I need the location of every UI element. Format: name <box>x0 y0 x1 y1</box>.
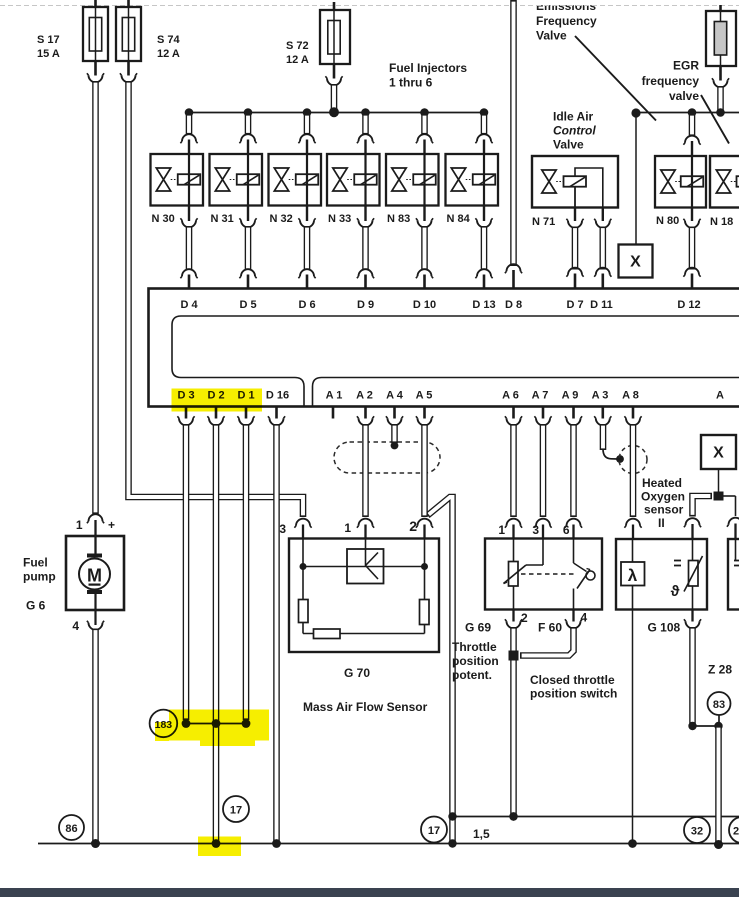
wire ECU D3 to splice 183 <box>183 424 190 720</box>
svg-text:2: 2 <box>733 826 739 838</box>
fuse S17 15A <box>37 0 108 61</box>
wire ECU D2 down to ground rail <box>213 424 220 842</box>
fuse EGR (top right) <box>706 5 736 66</box>
svg-text:II: II <box>658 516 665 530</box>
svg-text:N 18: N 18 <box>710 216 733 228</box>
fuel pump motor G6 <box>66 536 124 625</box>
wire terminal 83 to ground rail <box>714 726 723 849</box>
svg-text:pump: pump <box>23 570 56 584</box>
wire bus to injector N30 <box>180 114 197 154</box>
svg-text:D 7: D 7 <box>566 299 583 311</box>
label Fuel Injectors 1 thru 6 <box>389 61 467 90</box>
svg-text:D 12: D 12 <box>677 299 700 311</box>
wire bus to connector X (upper) <box>635 113 637 245</box>
svg-text:3: 3 <box>279 522 286 536</box>
svg-text:Idle Air: Idle Air <box>553 110 594 124</box>
svg-text:A 5: A 5 <box>416 390 433 402</box>
page border line <box>0 5 739 7</box>
svg-text:N 30: N 30 <box>152 213 175 225</box>
terminal (cut, right edge) <box>729 817 739 843</box>
solenoid injector valve N31 <box>210 154 263 225</box>
svg-text:λ: λ <box>628 566 638 585</box>
svg-text:N 32: N 32 <box>270 213 293 225</box>
svg-text:position: position <box>452 654 499 668</box>
throttle position potentiometer G69 / switch F60 <box>485 523 602 610</box>
label G108 <box>648 621 681 635</box>
shield (dashed circle) on A8 wire <box>619 446 647 474</box>
wire ECU A3 to shield of A8 <box>603 424 624 463</box>
solenoid injector valve N83 <box>386 154 439 225</box>
wire splice to terminal 83 <box>693 722 723 730</box>
svg-text:86: 86 <box>65 823 77 835</box>
svg-text:1: 1 <box>498 523 505 537</box>
svg-text:Fuel: Fuel <box>23 556 48 570</box>
fuse S74 12A <box>116 0 181 61</box>
label Emissions Frequency Valve (top-clipped) <box>528 0 610 43</box>
ECU bottom pins <box>177 407 641 426</box>
wire bus to injector N83 <box>416 114 433 154</box>
mass air flow sensor G70 <box>279 518 439 652</box>
page footer bar <box>0 888 739 897</box>
node injector supply bus <box>185 107 489 117</box>
wire X to heater junction <box>718 469 720 492</box>
svg-text:2: 2 <box>521 611 528 625</box>
wire bus to injector N84 <box>475 114 492 154</box>
wire ECU A7 to G69 pin 3 <box>534 424 551 539</box>
ECU control unit connector band <box>149 289 739 407</box>
terminal 86 <box>59 815 84 840</box>
terminal 83 <box>708 692 731 722</box>
splice 183 bus wire <box>186 723 246 725</box>
svg-text:15 A: 15 A <box>37 48 60 60</box>
svg-text:Valve: Valve <box>553 138 584 152</box>
connector X (upper) <box>619 245 653 278</box>
wire bus to valve N80 <box>683 114 700 156</box>
svg-text:G 70: G 70 <box>344 666 370 680</box>
solenoid injector valve N32 <box>269 154 322 225</box>
svg-text:S 17: S 17 <box>37 34 60 46</box>
svg-text:Valve: Valve <box>536 29 567 43</box>
svg-text:Control: Control <box>553 124 596 138</box>
wire N83 to ECU pin D <box>416 206 433 289</box>
svg-text:N 71: N 71 <box>532 216 555 228</box>
ECU top pin labels D4 D5 D6 D9 D10 D13 D8 D7 D11 D12 <box>180 299 700 311</box>
solenoid injector valve N84 <box>446 154 499 225</box>
svg-text:Frequency: Frequency <box>536 14 597 28</box>
label EGR frequency valve <box>642 59 700 104</box>
wire S17 to fuel pump <box>87 61 104 554</box>
wire bus to injector N31 <box>239 114 256 154</box>
svg-text:1: 1 <box>344 521 351 535</box>
solenoid injector valve N33 <box>327 154 380 225</box>
svg-text:A 9: A 9 <box>562 390 579 402</box>
ECU bottom pin labels D3 D2 D1 D16 A1 A2 A4 A5 A6 A7 A9 A3 A8 A <box>177 390 724 402</box>
svg-text:Mass Air Flow Sensor: Mass Air Flow Sensor <box>303 700 428 714</box>
svg-text:12 A: 12 A <box>157 48 180 60</box>
svg-text:A 4: A 4 <box>386 390 404 402</box>
svg-text:X: X <box>713 445 724 462</box>
leader line EGR frequency valve <box>701 95 729 144</box>
svg-text:EGR: EGR <box>673 59 699 73</box>
main ground rail (terminal 86/32) <box>38 843 739 845</box>
labels G69 F60 pins 2 4 <box>465 611 588 635</box>
wire G69 pin 2 down to sensor ground rail <box>505 610 522 821</box>
svg-text:1: 1 <box>76 518 83 532</box>
wire ECU D1 to splice 183 <box>243 424 250 720</box>
svg-text:Closed throttle: Closed throttle <box>530 673 615 687</box>
splice dots 183 row <box>182 719 251 728</box>
svg-text:A 3: A 3 <box>592 390 609 402</box>
wire S72 to injector bus <box>325 64 342 111</box>
svg-text:N 83: N 83 <box>387 213 410 225</box>
svg-text:N 31: N 31 <box>211 213 234 225</box>
svg-text:sensor: sensor <box>644 503 684 517</box>
wire N71 pin 2 to ECU D11 <box>594 208 611 289</box>
ground rail dots <box>91 839 723 849</box>
junction (solid square) F60 to G69 ground <box>509 651 519 661</box>
svg-text:G 69: G 69 <box>465 621 491 635</box>
label Heated Oxygen sensor II <box>641 476 685 530</box>
svg-text:N 84: N 84 <box>447 213 471 225</box>
label Z28 <box>708 663 732 677</box>
svg-text:G 6: G 6 <box>26 599 46 613</box>
svg-text:Heated: Heated <box>642 476 682 490</box>
svg-text:+: + <box>108 518 115 532</box>
label wire size 1,5 <box>473 827 490 841</box>
svg-text:A 6: A 6 <box>502 390 519 402</box>
svg-text:Oxygen: Oxygen <box>641 490 685 504</box>
svg-text:2: 2 <box>409 518 417 534</box>
wire N33 to ECU pin D <box>357 206 374 289</box>
svg-text:Fuel Injectors: Fuel Injectors <box>389 61 467 75</box>
wire ECU D16 down to ground rail <box>273 424 280 842</box>
fuel pump terminal labels <box>72 518 115 633</box>
svg-text:M: M <box>87 566 102 586</box>
wire S74 to G70 pin 3 <box>120 61 312 539</box>
junction (solid square) heater feed <box>714 492 724 501</box>
svg-text:D 4: D 4 <box>180 299 198 311</box>
terminal 32 <box>684 817 710 843</box>
svg-text:D 8: D 8 <box>505 299 522 311</box>
wire bus to injector N32 <box>298 114 315 154</box>
solenoid valve N80 (EGR frequency valve) <box>655 156 706 227</box>
svg-text:32: 32 <box>691 826 703 838</box>
svg-text:A 2: A 2 <box>356 390 373 402</box>
wire bus to injector N33 <box>357 114 374 154</box>
svg-text:valve: valve <box>669 89 699 103</box>
heated oxygen sensor II G108 <box>616 539 707 610</box>
svg-text:X: X <box>630 254 641 271</box>
shield (dashed) around A2/A5 wires <box>334 442 440 473</box>
svg-text:D 5: D 5 <box>239 299 256 311</box>
svg-text:Throttle: Throttle <box>452 640 497 654</box>
svg-text:G 108: G 108 <box>648 621 681 635</box>
wire F60 pin 4 to junction <box>520 610 582 656</box>
highlight splice 183 <box>155 710 269 747</box>
svg-text:A 1: A 1 <box>326 390 343 402</box>
svg-text:ϑ: ϑ <box>671 583 680 600</box>
wire junction to G108 heater pin <box>684 496 712 539</box>
label Fuel pump G6 <box>23 556 56 613</box>
svg-text:N 80: N 80 <box>656 215 679 227</box>
wire ECU A5 to G70 pin 2 <box>416 424 433 539</box>
oxygen sensor (partial, right edge) <box>728 539 739 610</box>
svg-text:4: 4 <box>72 619 79 633</box>
solenoid valve N18 (partial, right edge) <box>710 156 739 228</box>
terminal 17 (sensor rail) <box>421 817 447 843</box>
svg-text:A 7: A 7 <box>532 390 549 402</box>
wire N32 to ECU pin D <box>298 206 315 289</box>
wire ECU A4 to shield <box>391 424 399 449</box>
svg-text:S 74: S 74 <box>157 34 181 46</box>
sensor ground rail (terminal 17) <box>453 816 739 818</box>
wire fuel pump to ground rail <box>87 621 104 848</box>
svg-text:D 9: D 9 <box>357 299 374 311</box>
svg-text:17: 17 <box>428 825 440 837</box>
wire G108 lambda output to ground rail <box>628 610 637 848</box>
label Throttle position potent. <box>452 640 499 682</box>
svg-text:F 60: F 60 <box>538 621 562 635</box>
wire N31 to ECU pin D <box>239 206 256 289</box>
svg-text:D 13: D 13 <box>472 299 495 311</box>
svg-text:frequency: frequency <box>642 74 700 88</box>
connector X (right) <box>701 435 736 469</box>
label Mass Air Flow Sensor <box>303 700 428 714</box>
solenoid injector valve N30 <box>151 154 204 225</box>
wire N30 to ECU pin D <box>180 206 197 289</box>
svg-text:D 10: D 10 <box>413 299 436 311</box>
label Closed throttle position switch <box>530 673 617 701</box>
svg-text:3: 3 <box>532 523 539 537</box>
wire ECU A6 to G69 pin 1 <box>505 424 522 539</box>
wire N80 to ECU pin D12 <box>683 208 700 289</box>
wire ECU A8 to G108 pin (lambda) <box>624 424 641 539</box>
svg-text:17: 17 <box>230 805 242 817</box>
svg-text:A: A <box>716 390 724 402</box>
wire G108 heater Z28 down <box>684 610 701 731</box>
sensor rail dots <box>448 812 517 820</box>
highlight ground splice <box>198 837 241 857</box>
wire junction to second sensor (right edge) <box>724 496 739 539</box>
wire N84 to ECU pin D <box>475 206 492 289</box>
svg-text:S 72: S 72 <box>286 40 309 52</box>
svg-text:Z 28: Z 28 <box>708 663 732 677</box>
wire ECU A2 to G70 pin 1 <box>357 424 374 539</box>
svg-text:potent.: potent. <box>452 668 492 682</box>
solenoid valve N71 (idle air control) <box>532 156 618 228</box>
terminal 17 (on D2 wire) <box>223 796 249 822</box>
wire N71 pin 1 to ECU D7 <box>566 208 583 289</box>
wire G70 pin 2 branch to sensor ground rail <box>428 497 453 817</box>
svg-text:D 6: D 6 <box>298 299 315 311</box>
svg-text:1 thru 6: 1 thru 6 <box>389 76 433 90</box>
svg-text:12 A: 12 A <box>286 54 309 66</box>
wire ECU A9 to G69 pin 6 <box>565 424 582 539</box>
wire sensor rail to ground rail <box>449 817 456 843</box>
svg-text:D 11: D 11 <box>590 299 613 311</box>
svg-text:A 8: A 8 <box>622 390 639 402</box>
node EGR supply bus <box>631 108 739 117</box>
label Idle Air Control Valve <box>553 110 596 152</box>
leader line emissions frequency valve <box>575 36 656 121</box>
svg-text:position switch: position switch <box>530 687 617 701</box>
wire EGR fuse to bus <box>712 66 729 111</box>
label G70 <box>344 666 370 680</box>
terminal 183 <box>150 710 178 738</box>
fuse S72 12A <box>286 2 350 66</box>
wire to ECU pin D8 (from emissions frequency valve) <box>505 0 522 289</box>
svg-text:4: 4 <box>581 611 588 625</box>
svg-text:N 33: N 33 <box>328 213 351 225</box>
highlight over D3 D2 D1 <box>172 389 263 412</box>
svg-text:83: 83 <box>713 699 725 711</box>
svg-text:D 16: D 16 <box>266 390 289 402</box>
svg-text:6: 6 <box>563 523 570 537</box>
svg-text:1,5: 1,5 <box>473 827 490 841</box>
